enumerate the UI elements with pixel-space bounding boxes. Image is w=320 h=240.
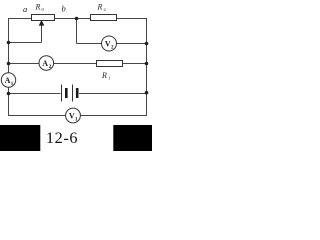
svg-text:R: R — [97, 3, 103, 12]
svg-text:A: A — [5, 76, 11, 85]
svg-text:b: b — [62, 4, 66, 14]
wire R1 to right vertical — [123, 63, 147, 65]
battery cell 2 short thick plate — [76, 88, 79, 98]
wire potentiometer b to R2 — [55, 18, 91, 20]
wire wiper stem — [41, 25, 43, 43]
caption bar left black block — [0, 125, 40, 151]
junction node R1 row on right vertical — [145, 62, 149, 66]
svg-text:2: 2 — [104, 7, 106, 12]
wire V2 branch to voltmeter — [77, 43, 102, 45]
caption bar right black block — [113, 125, 152, 151]
wire wiper tap horizontal — [9, 42, 42, 44]
svg-text:a: a — [23, 4, 27, 14]
wire R2 to top-right corner — [117, 18, 148, 20]
battery cell 1 short thick plate — [65, 88, 68, 98]
junction node wiper on left vertical — [7, 41, 11, 45]
junction node A2 row on left vertical — [7, 62, 11, 66]
wire V2 branch vertical — [76, 19, 78, 44]
svg-text:2: 2 — [111, 44, 114, 50]
wire battery row right — [79, 93, 147, 95]
svg-text:R: R — [101, 71, 107, 80]
battery cell 2 long plate — [72, 85, 74, 102]
svg-text:1: 1 — [108, 76, 110, 81]
resistor R2 body — [91, 15, 117, 21]
svg-text:12-6: 12-6 — [46, 128, 78, 147]
potentiometer R0 body — [32, 15, 55, 21]
battery cell 1 long plate — [61, 85, 63, 102]
junction node battery row on right vertical — [145, 91, 149, 95]
wire bottom row left of V1 — [9, 115, 66, 117]
junction node V2 row on right vertical — [145, 42, 149, 46]
wire left vertical lower — [8, 87, 10, 116]
wire V2 to right vertical — [116, 43, 146, 45]
ammeter A2 — [39, 56, 54, 71]
wire bottom row right of V1 — [80, 115, 146, 117]
voltmeter V1 — [66, 108, 81, 123]
junction node battery row on left vertical — [7, 92, 11, 96]
svg-text:1: 1 — [75, 116, 78, 122]
svg-text:A: A — [42, 59, 48, 68]
resistor R1 body — [97, 61, 123, 67]
wire left vertical upper — [8, 18, 10, 73]
wire right vertical — [146, 18, 148, 116]
svg-text:R: R — [35, 3, 41, 12]
voltmeter V2 — [102, 36, 117, 51]
wire top-left to potentiometer — [8, 18, 32, 20]
svg-text:2: 2 — [49, 64, 52, 70]
wire A2 row left — [9, 63, 40, 65]
wire battery row left — [9, 93, 61, 95]
junction node at b/R2 branch — [75, 17, 79, 21]
wire A2 to R1 — [54, 63, 97, 65]
svg-text:0: 0 — [42, 7, 45, 12]
ammeter A1 — [1, 73, 15, 87]
potentiometer wiper arrow — [39, 20, 45, 26]
